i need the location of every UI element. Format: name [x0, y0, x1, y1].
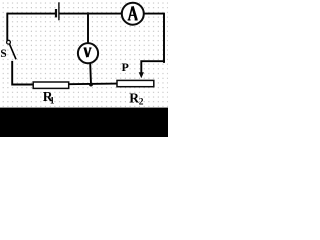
- svg-text:1: 1: [50, 96, 55, 106]
- svg-text:P: P: [122, 60, 129, 74]
- svg-text:R: R: [129, 91, 139, 106]
- svg-text:S: S: [0, 48, 6, 60]
- svg-text:2: 2: [139, 97, 144, 107]
